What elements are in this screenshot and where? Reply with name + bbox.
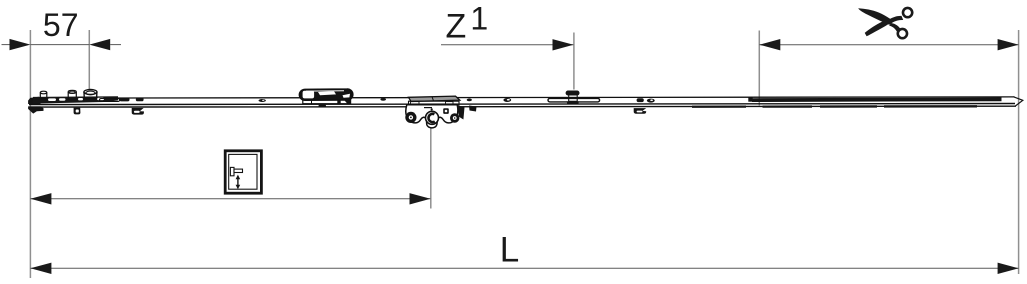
extension line cut left (x=759) [758,31,760,106]
Z1 pin cap [566,91,580,96]
hook under rail 4 [469,106,477,112]
rail front band lower line [29,105,1016,108]
rivet 2 [380,98,386,101]
svg-text:Z: Z [446,8,467,46]
window icon [225,151,261,193]
carriage slot band [409,101,460,105]
carriage right bracket [458,105,465,119]
carriage left wheel [405,112,416,123]
carriage detail line [424,107,432,109]
dimension 57 line [2,44,10,46]
carriage body [406,105,458,128]
hook under rail 1 [74,108,81,115]
carriage pin block [443,108,449,114]
cam block A [120,98,130,102]
rivet 4 [503,98,511,102]
extension line 57 right (x=89) [88,30,90,89]
cam block B [136,98,144,102]
mushroom cam [84,90,97,99]
carriage centre wheel [426,111,439,124]
L dimension left arrow [30,263,51,274]
rivet 1 [259,99,266,102]
Z1 pin stem [569,95,578,101]
Z1 pin collar [567,101,579,104]
svg-text:1: 1 [470,1,488,37]
dimension Z1 line [441,44,574,46]
roller carriage [405,96,464,128]
rivet 6 [647,99,655,103]
dimension cut line [759,44,1018,46]
rail top edge line [33,97,1015,98]
scissors icon [858,7,913,40]
carriage top plate [409,96,460,101]
hook under rail 3 [634,108,647,114]
left band white details [48,98,104,101]
oval slider block [300,89,353,107]
svg-text:L: L [500,231,519,270]
left dark band [33,96,118,103]
carriage right wheel [450,113,459,122]
extension line left (x=30) full height [29,30,31,278]
overlap rail step [748,97,752,101]
Z1 slot [548,98,600,102]
front slot dash 1 [692,106,746,108]
front slot dash 4 [884,105,977,108]
dimension cut left arrow [759,39,780,50]
overlap rail thick band [752,98,1002,103]
handle dimension left arrow [30,193,51,204]
left end cap foot [28,106,43,113]
dimension 57 right arrow [89,39,110,50]
dimension cut right arrow [998,39,1019,50]
left end cap [28,97,40,104]
extension line right (x=1019) full height [1018,30,1020,274]
hook under rail 2 [132,108,144,115]
handle dimension right arrow [410,193,431,204]
L dimension right arrow [998,263,1019,274]
dimension Z1 arrow [553,39,574,50]
left band slot plate [100,99,120,102]
rail front band upper line [29,104,1015,105]
L dimension line [30,267,1018,269]
front slot dash 2 [763,105,813,107]
cylinder pin A [40,91,47,98]
cylinder pin B [68,90,76,99]
extension line Z1 (x=574) [573,33,575,90]
svg-text:57: 57 [43,7,79,43]
handle dimension line [30,198,430,200]
rivet 3 [467,99,472,102]
front slot dash 3 [820,105,877,107]
rivet 5 [637,98,644,102]
rail right taper tip [1014,97,1023,106]
dimension 57 left arrow [10,39,31,50]
extension line handle-dim right (x=430) [430,128,432,209]
